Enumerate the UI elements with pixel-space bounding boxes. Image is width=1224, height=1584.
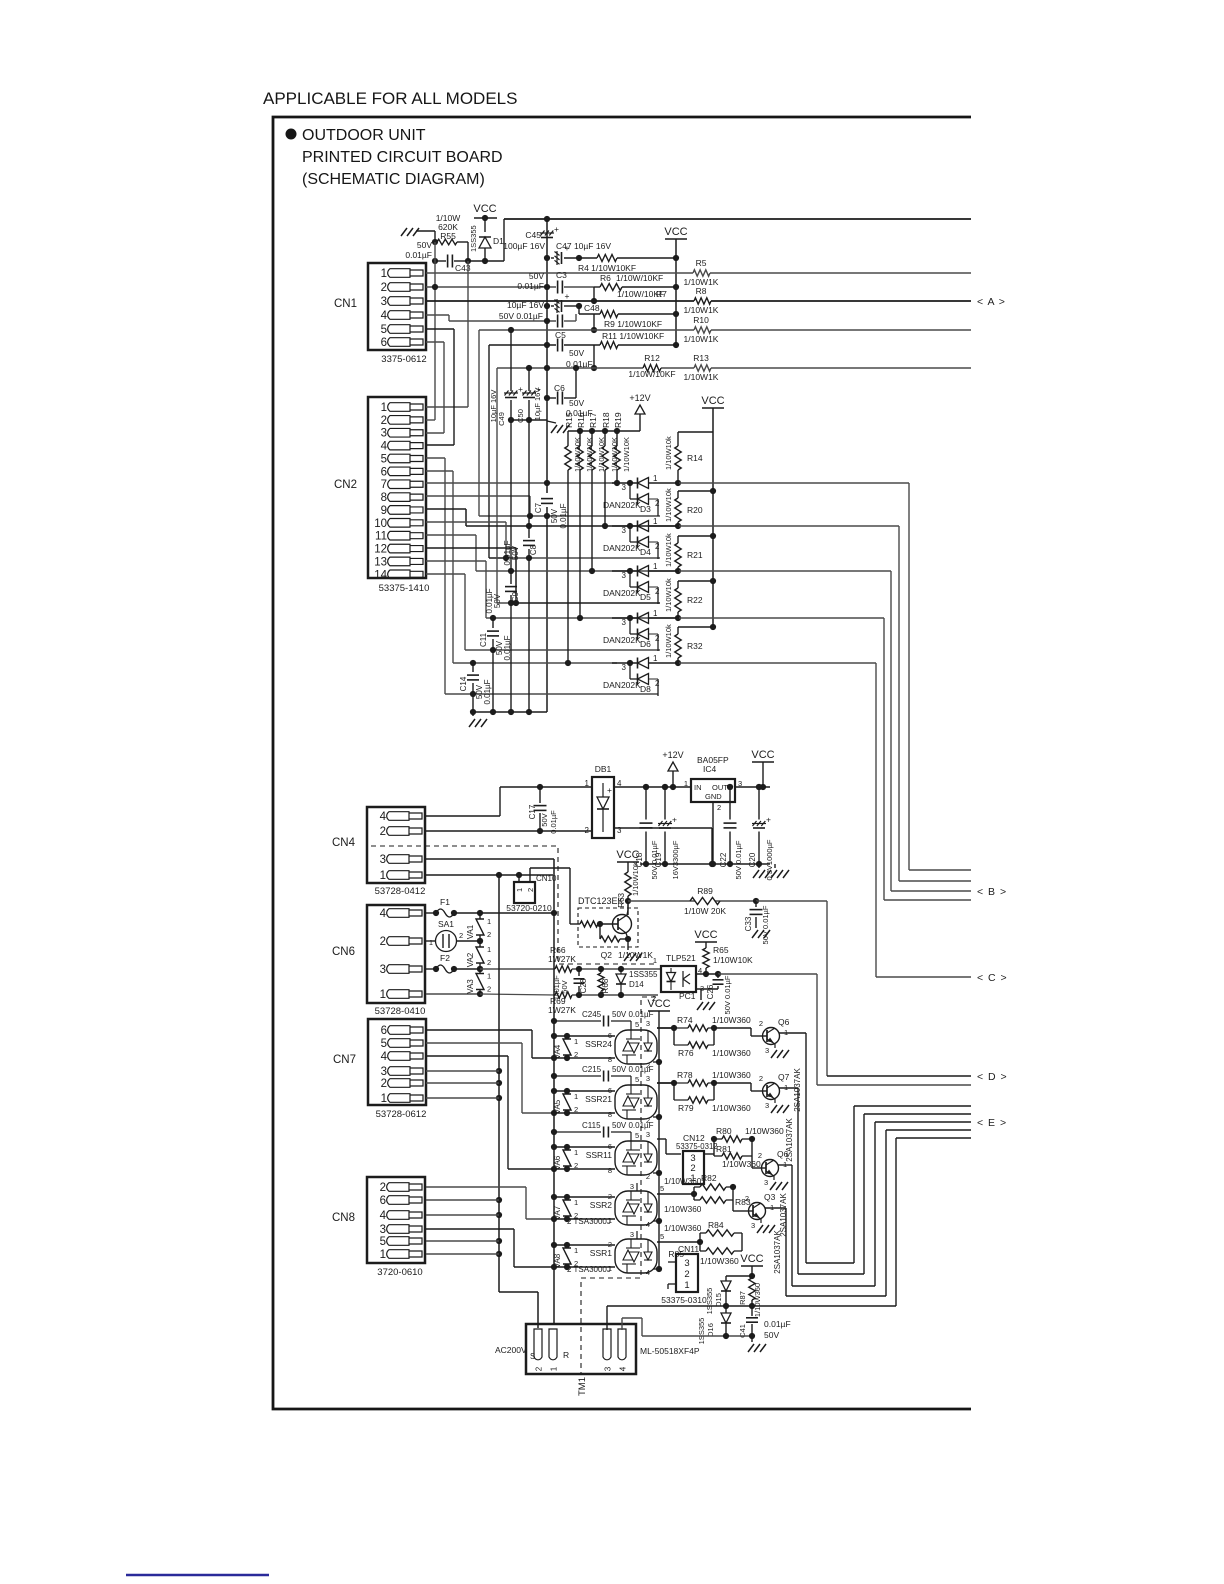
wire gnd row 231 <box>416 231 435 242</box>
svg-text:C9: C9 <box>511 591 520 602</box>
resistor R17 <box>591 431 593 446</box>
wire F1 row to rail <box>480 910 557 916</box>
svg-text:8: 8 <box>608 1110 612 1119</box>
svg-text:1: 1 <box>574 1037 578 1046</box>
svg-text:1/10W360: 1/10W360 <box>664 1205 702 1214</box>
svg-text:8: 8 <box>381 492 387 504</box>
svg-text:C33: C33 <box>744 916 753 931</box>
resistor R11 <box>600 342 618 349</box>
resistor R65 <box>703 948 709 968</box>
wire row 261 to rail corner <box>468 219 504 261</box>
svg-text:5: 5 <box>381 324 387 336</box>
wire main rail x547 <box>544 216 550 712</box>
svg-text:2: 2 <box>684 1269 689 1280</box>
svg-text:2: 2 <box>535 1366 544 1371</box>
svg-text:1: 1 <box>381 402 387 414</box>
capacitor C8 C50 column <box>528 368 530 391</box>
svg-text:Q6: Q6 <box>778 1017 790 1027</box>
wire CN4 pin4 loop <box>426 784 543 816</box>
wire SSR11 input rows <box>551 1142 615 1175</box>
svg-text:3: 3 <box>381 428 387 440</box>
resistor R55 <box>435 241 437 243</box>
wire row 287 CN1 pin2 <box>426 284 594 290</box>
resistor R19 <box>616 431 618 446</box>
svg-text:VCC: VCC <box>701 395 724 407</box>
connector CN4 <box>332 807 425 897</box>
svg-text:16V3300µF: 16V3300µF <box>671 840 680 879</box>
diode pair D5 DAN202K <box>627 568 633 574</box>
resistor R13 <box>694 365 711 371</box>
svg-text:2: 2 <box>574 1105 578 1114</box>
svg-text:APPLICABLE FOR ALL MODELS: APPLICABLE FOR ALL MODELS <box>263 89 517 108</box>
wire row 345 R11 <box>489 342 679 348</box>
svg-text:OUTDOOR UNIT: OUTDOOR UNIT <box>302 127 426 144</box>
svg-text:R65: R65 <box>713 945 729 955</box>
svg-text:PRINTED CIRCUIT BOARD: PRINTED CIRCUIT BOARD <box>302 149 503 166</box>
svg-text:Q6: Q6 <box>777 1149 789 1159</box>
capacitor C43 <box>435 260 446 262</box>
svg-text:VA3: VA3 <box>466 979 475 994</box>
wire SSR1 input rows <box>551 1240 615 1273</box>
svg-text:3: 3 <box>622 571 627 580</box>
svg-text:R10: R10 <box>693 315 709 325</box>
svg-text:12: 12 <box>374 544 387 556</box>
svg-text:CN1: CN1 <box>334 298 357 310</box>
svg-text:4: 4 <box>646 1220 650 1229</box>
wire CN2 pin7 row483 <box>426 482 617 484</box>
wire SSR21 pin3 row <box>646 1074 674 1083</box>
svg-text:2: 2 <box>526 888 535 892</box>
svg-text:2: 2 <box>608 1240 612 1249</box>
svg-text:2: 2 <box>655 634 660 643</box>
svg-text:2: 2 <box>381 1078 387 1090</box>
svg-text:53375-0310: 53375-0310 <box>661 1295 707 1305</box>
svg-text:50V 0.01µF: 50V 0.01µF <box>499 311 543 321</box>
wire R11 stub <box>591 345 597 371</box>
resistor R82 <box>693 1187 695 1194</box>
capacitor C28 <box>578 969 580 976</box>
svg-text:R78: R78 <box>677 1070 693 1080</box>
svg-text:SSR1: SSR1 <box>590 1248 612 1258</box>
svg-text:1W27K: 1W27K <box>548 1005 576 1015</box>
svg-text:CN7: CN7 <box>333 1054 356 1066</box>
svg-text:1SS355: 1SS355 <box>629 970 658 979</box>
svg-text:R79: R79 <box>678 1103 694 1113</box>
svg-text:53375-0312: 53375-0312 <box>676 1142 718 1151</box>
svg-text:50V: 50V <box>764 1330 779 1340</box>
svg-text:3: 3 <box>684 1258 689 1269</box>
svg-text:8: 8 <box>608 1166 612 1175</box>
capacitor C41 <box>751 1306 753 1316</box>
svg-text:2: 2 <box>646 1116 650 1125</box>
svg-text:4: 4 <box>380 1210 387 1222</box>
svg-text:1/10W10k: 1/10W10k <box>664 488 673 522</box>
wire CN2 pin14 to return650 <box>426 574 660 653</box>
fuse F1 <box>426 912 436 914</box>
svg-text:1/10W360: 1/10W360 <box>664 1177 702 1186</box>
wire TLP pin3 row <box>696 989 718 1000</box>
ground power section <box>758 864 760 868</box>
svg-text:0.01µF: 0.01µF <box>485 588 494 613</box>
svg-text:(SCHEMATIC DIAGRAM): (SCHEMATIC DIAGRAM) <box>302 171 485 188</box>
svg-text:2: 2 <box>585 826 590 835</box>
svg-text:D8: D8 <box>640 684 651 694</box>
wire CN8 pin2 stair <box>426 1187 554 1219</box>
wire CN8 pins to rail <box>426 1200 499 1254</box>
svg-text:0.3V1000µF: 0.3V1000µF <box>765 839 774 880</box>
svg-text:DAN202K: DAN202K <box>603 680 641 690</box>
svg-text:6: 6 <box>380 1195 386 1207</box>
wire SSR21 input rows <box>551 1086 615 1119</box>
wire R9 stub <box>591 314 597 333</box>
capacitor C6 <box>557 392 559 405</box>
svg-text:3375-0612: 3375-0612 <box>381 354 426 365</box>
svg-text:C49: C49 <box>497 412 506 426</box>
svg-text:DAN202K: DAN202K <box>603 500 641 510</box>
svg-text:D3: D3 <box>640 504 651 514</box>
svg-text:GND: GND <box>705 792 722 801</box>
resistor R76 <box>673 1028 675 1045</box>
svg-text:1/10W10k: 1/10W10k <box>664 436 673 470</box>
svg-text:10µF 16V: 10µF 16V <box>489 390 498 423</box>
wire SSR21 pin2 hook <box>646 1114 662 1125</box>
svg-text:VCC: VCC <box>740 1253 763 1265</box>
wire R55 to C43 row <box>432 242 471 264</box>
svg-text:TM1: TM1 <box>577 1377 588 1396</box>
svg-text:VCC: VCC <box>473 203 496 215</box>
svg-text:< C >: < C > <box>977 972 1008 984</box>
svg-text:1: 1 <box>550 1366 559 1371</box>
svg-text:0.01µF: 0.01µF <box>764 1319 791 1329</box>
svg-text:R9 1/10W10KF: R9 1/10W10KF <box>604 319 662 329</box>
svg-text:C11: C11 <box>479 632 488 647</box>
svg-text:50V: 50V <box>511 545 520 560</box>
svg-text:VCC: VCC <box>694 929 717 941</box>
svg-text:C3: C3 <box>556 270 567 280</box>
wire E group 4 <box>786 1130 971 1296</box>
svg-text:4: 4 <box>381 310 388 322</box>
svg-text:OUT: OUT <box>712 783 728 792</box>
svg-text:VA1: VA1 <box>466 924 475 939</box>
varistor VA4 <box>566 1036 568 1039</box>
optocoupler PC1 TLP521 <box>661 966 696 992</box>
capacitor C5 <box>557 339 559 352</box>
wire E group 2 <box>798 1114 971 1274</box>
surge arrester SA1 <box>426 940 435 942</box>
svg-text:5: 5 <box>660 1232 664 1241</box>
connector CN1 <box>334 263 427 365</box>
svg-text:1/10W10K: 1/10W10K <box>622 437 631 472</box>
svg-text:3: 3 <box>622 663 627 672</box>
wire CN4 pin1 row <box>426 872 553 878</box>
wire CN2 pin12 to return603 <box>426 548 660 606</box>
transistor Q7 2SA1037AK <box>763 1083 780 1100</box>
svg-text:1/10W360: 1/10W360 <box>712 1048 751 1058</box>
svg-text:1: 1 <box>653 609 658 618</box>
wire rail x468 to CN2 pin1 <box>426 261 468 407</box>
svg-text:C50: C50 <box>516 409 525 423</box>
svg-text:2: 2 <box>608 1192 612 1201</box>
svg-text:+12V: +12V <box>629 393 650 403</box>
wire CN2 pin6 to row663 <box>426 471 617 663</box>
svg-text:1/10W10k: 1/10W10k <box>664 533 673 567</box>
regulator IC4 BA05FP <box>691 779 735 802</box>
solid state relay SSR1 <box>615 1239 657 1273</box>
svg-text:1SS355: 1SS355 <box>697 1318 706 1345</box>
svg-text:3: 3 <box>622 526 627 535</box>
connector CN6 <box>332 905 425 1017</box>
wire CN2 pin11 to row571 <box>426 535 679 574</box>
resistor R68 <box>598 973 604 991</box>
svg-text:53728-0412: 53728-0412 <box>375 886 426 897</box>
svg-text:VCC: VCC <box>751 749 774 761</box>
svg-text:< B >: < B > <box>977 886 1007 898</box>
ground D16 C41 <box>748 1344 754 1352</box>
svg-text:1: 1 <box>380 1249 386 1261</box>
svg-text:< E >: < E > <box>977 1117 1007 1129</box>
svg-text:TLP521: TLP521 <box>666 953 696 963</box>
svg-text:50V 0.01µF: 50V 0.01µF <box>761 905 770 944</box>
capacitor C33 <box>755 901 757 907</box>
resistor R85 <box>699 1242 701 1251</box>
wire bend to B group <box>679 483 971 870</box>
svg-text:1: 1 <box>574 1092 578 1101</box>
svg-text:3: 3 <box>765 1101 769 1110</box>
wire D15 top hook <box>726 1276 752 1281</box>
capacitor C3 <box>557 281 559 294</box>
svg-text:D14: D14 <box>629 980 644 989</box>
wire rail x554 CN4 pin3 <box>426 859 554 1324</box>
solid state relay SSR21 <box>615 1085 657 1119</box>
diode pair D3 DAN202K <box>627 480 633 486</box>
wire bus 1336 <box>642 1333 755 1342</box>
svg-text:1: 1 <box>574 1246 578 1255</box>
wire isolation dashed boundary <box>371 846 656 1374</box>
wire CN2 pin13 to row618 <box>426 561 679 621</box>
wire CN2 pin8 to return516 <box>426 496 660 519</box>
wire row787 to DB1 <box>540 786 592 788</box>
svg-text:2: 2 <box>655 542 660 551</box>
svg-text:9: 9 <box>381 505 387 517</box>
svg-text:2: 2 <box>381 282 387 294</box>
diode pair D4 DAN202K <box>627 523 633 529</box>
svg-text:D5: D5 <box>640 592 651 602</box>
capacitor C20 <box>758 787 760 820</box>
svg-text:1SS355: 1SS355 <box>469 225 478 252</box>
wire bend to C <box>679 663 971 977</box>
svg-text:6: 6 <box>381 466 387 478</box>
solid state relay SSR2 <box>615 1191 657 1225</box>
svg-text:50V: 50V <box>529 271 544 281</box>
resistor R87 <box>749 1278 755 1300</box>
capacitor C22 <box>729 787 731 820</box>
svg-text:0.01µF: 0.01µF <box>517 281 544 291</box>
svg-text:2: 2 <box>655 679 660 688</box>
varistor VA1 <box>479 913 481 919</box>
svg-text:D15: D15 <box>714 1293 723 1307</box>
wire ground bus 864 <box>640 861 770 867</box>
connector CN2 <box>334 397 429 594</box>
wire row 306 C48 <box>544 303 582 314</box>
diode D1 <box>484 218 486 232</box>
svg-text:DB1: DB1 <box>595 764 612 774</box>
svg-text:2SA1037AK: 2SA1037AK <box>773 1230 782 1274</box>
svg-text:VA8: VA8 <box>553 1253 562 1268</box>
svg-text:50V: 50V <box>560 980 569 993</box>
wire R6 stub <box>591 287 600 304</box>
resistor R74 <box>657 1027 674 1029</box>
wire ground bus 712 <box>473 711 547 713</box>
svg-text:6: 6 <box>381 1025 387 1037</box>
svg-text:1/10W1K: 1/10W1K <box>684 305 719 315</box>
svg-text:0.01µF: 0.01µF <box>483 679 492 704</box>
wire row330 descender x479 <box>479 330 530 516</box>
svg-text:6: 6 <box>608 1086 612 1095</box>
solid state relay SSR24 <box>615 1030 657 1064</box>
svg-text:CN6: CN6 <box>332 946 355 958</box>
connector CN8 <box>332 1177 425 1278</box>
svg-text:2: 2 <box>745 1194 749 1203</box>
svg-text:1: 1 <box>653 562 658 571</box>
wire Q6u collector <box>779 1033 806 1263</box>
svg-text:R14: R14 <box>687 453 703 463</box>
capacitor C45 <box>541 237 553 239</box>
wire R74 to Q6u base <box>714 1028 759 1036</box>
resistor R89 <box>690 898 720 905</box>
resistor R4 <box>597 255 617 262</box>
ground CN2 section <box>472 712 474 716</box>
svg-text:C115: C115 <box>582 1121 601 1130</box>
resistor R79 <box>673 1083 675 1100</box>
svg-text:3: 3 <box>380 964 386 976</box>
capacitor C26 <box>717 974 719 978</box>
svg-text:SSR21: SSR21 <box>585 1094 612 1104</box>
svg-text:50V: 50V <box>569 398 584 408</box>
svg-text:50V: 50V <box>417 240 432 250</box>
wire Q3 base <box>733 1200 745 1211</box>
wire SSR2 pin4 hook <box>646 1218 662 1229</box>
svg-text:3: 3 <box>622 483 627 492</box>
svg-text:DAN202K: DAN202K <box>603 588 641 598</box>
svg-text:1/10W/10KF: 1/10W/10KF <box>616 273 663 283</box>
resistor R14 <box>678 431 713 433</box>
svg-text:VA5: VA5 <box>553 1099 562 1114</box>
svg-text:10µF 16V: 10µF 16V <box>533 388 542 421</box>
svg-text:R15: R15 <box>564 412 574 428</box>
svg-text:4: 4 <box>646 1268 650 1277</box>
svg-text:3: 3 <box>630 1230 634 1239</box>
transistor Q3 2SA1037AK <box>749 1203 766 1220</box>
svg-text:R21: R21 <box>687 550 703 560</box>
wire TM1 pin4 loop <box>622 1318 642 1336</box>
svg-text:C48: C48 <box>584 303 600 313</box>
svg-text:1: 1 <box>380 989 386 1001</box>
svg-text:C22: C22 <box>719 852 728 867</box>
svg-text:< D >: < D > <box>977 1071 1008 1083</box>
svg-text:VA6: VA6 <box>553 1155 562 1170</box>
wire row 368 R13 <box>497 365 971 371</box>
svg-text:50V 0.01µF: 50V 0.01µF <box>734 840 743 879</box>
resistor R15 <box>567 431 569 446</box>
svg-text:VCC: VCC <box>664 226 687 238</box>
svg-text:3: 3 <box>381 296 387 308</box>
wire E group 3 <box>792 1122 971 1286</box>
svg-text:1: 1 <box>487 972 491 981</box>
svg-text:+12V: +12V <box>662 750 683 760</box>
wire R89 to D1 bend <box>827 901 971 1076</box>
svg-text:3: 3 <box>751 1221 755 1230</box>
svg-text:2: 2 <box>380 1182 386 1194</box>
wire SSR24 pin3 row <box>646 1019 674 1028</box>
svg-text:0.01µF: 0.01µF <box>503 635 512 660</box>
svg-text:1: 1 <box>381 268 387 280</box>
ground main rail mid <box>547 421 556 423</box>
svg-text:3: 3 <box>622 618 627 627</box>
footer rule <box>126 1574 269 1576</box>
svg-text:2: 2 <box>459 931 463 940</box>
resistor R32 <box>678 626 713 628</box>
wire row 398 C6 <box>544 368 576 401</box>
resistor R80 <box>714 1138 722 1140</box>
wire CN7 pin5 stair <box>426 1043 554 1113</box>
resistor R16 <box>579 431 581 446</box>
svg-text:3: 3 <box>646 1130 650 1139</box>
svg-text:AC200V: AC200V <box>495 1345 527 1355</box>
wire CN12 to R80 link <box>704 1139 714 1154</box>
TM1 labels <box>495 1345 700 1396</box>
wire CN2 pin10 to return558 <box>426 522 660 561</box>
svg-text:R13: R13 <box>693 353 709 363</box>
svg-text:3: 3 <box>630 1182 634 1191</box>
svg-text:R82: R82 <box>701 1173 717 1183</box>
svg-text:1/10W360: 1/10W360 <box>712 1015 751 1025</box>
wire row 321 CN1 pin4 <box>426 314 576 324</box>
wire row 314 R9 <box>579 311 679 317</box>
svg-text:CN4: CN4 <box>332 837 356 849</box>
svg-text:R20: R20 <box>687 505 703 515</box>
svg-text:0.01µF: 0.01µF <box>559 503 568 528</box>
wire CN7 pin4 stair <box>426 1056 554 1169</box>
wire row 273 CN1 pin1 <box>426 272 971 274</box>
diode pair D6 DAN202K <box>627 615 633 621</box>
capacitor C17 <box>539 787 541 803</box>
wire row345 descender x489 <box>489 345 506 558</box>
svg-text:2: 2 <box>574 1211 578 1220</box>
resistor R69 <box>480 993 486 995</box>
wire SSR24 input rows <box>551 1031 615 1064</box>
svg-text:1/10W1K: 1/10W1K <box>684 334 719 344</box>
svg-text:F2: F2 <box>440 953 450 963</box>
svg-text:R8: R8 <box>696 286 707 296</box>
wire rail x499 CN4 pin1 <box>496 875 538 1328</box>
svg-text:11: 11 <box>375 531 387 543</box>
resistor R66 <box>555 966 572 972</box>
svg-text:R6: R6 <box>600 273 611 283</box>
svg-text:2: 2 <box>380 826 386 838</box>
capacitor C4 <box>557 315 559 328</box>
svg-text:+: + <box>672 815 677 825</box>
svg-text:C47 10µF 16V: C47 10µF 16V <box>556 241 611 251</box>
wire row 301 CN1 pin3 <box>426 300 971 302</box>
wire row 330 R10 <box>479 327 971 333</box>
svg-text:0.01µF: 0.01µF <box>549 810 558 834</box>
svg-text:D4: D4 <box>640 547 651 557</box>
ground TLP <box>697 1002 703 1010</box>
svg-text:1/10W360: 1/10W360 <box>700 1256 739 1266</box>
svg-text:1SS355: 1SS355 <box>705 1288 714 1315</box>
svg-text:2: 2 <box>758 1151 762 1160</box>
svg-text:R74: R74 <box>677 1015 693 1025</box>
